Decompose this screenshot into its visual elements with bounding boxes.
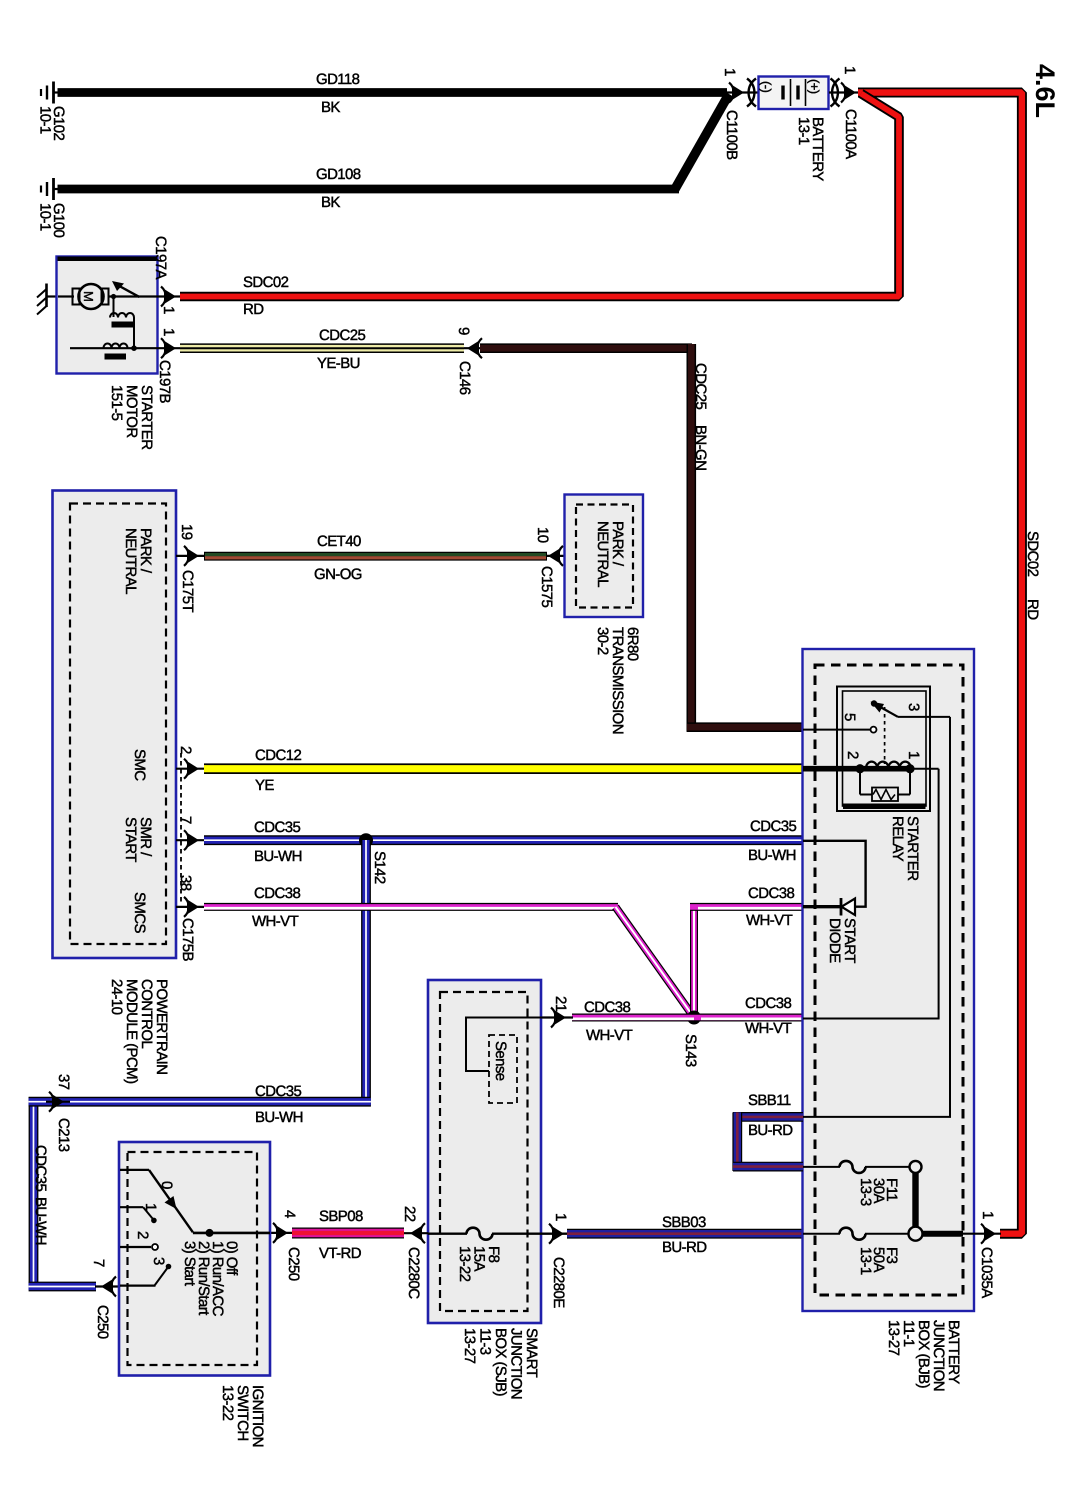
svg-text:CDC38: CDC38 bbox=[584, 999, 630, 1016]
connector C1100A pin 1 bbox=[829, 66, 859, 159]
connector C2280C pin 22 bbox=[401, 1206, 428, 1299]
svg-text:CDC25: CDC25 bbox=[319, 327, 365, 344]
svg-text:C2280E: C2280E bbox=[550, 1257, 567, 1308]
svg-text:C1100B: C1100B bbox=[723, 110, 740, 160]
svg-text:BU-RD: BU-RD bbox=[748, 1122, 793, 1139]
connector C2280E pin 1 bbox=[549, 1213, 569, 1308]
connector C197B pin 1 bbox=[156, 328, 180, 403]
start diode bbox=[803, 841, 866, 963]
svg-text:C1575: C1575 bbox=[538, 566, 555, 607]
wire GD118 BK bbox=[53, 71, 727, 116]
connector C250 pin 7 bbox=[90, 1259, 120, 1339]
svg-text:GN-OG: GN-OG bbox=[314, 566, 362, 583]
svg-text:1: 1 bbox=[552, 1213, 569, 1221]
smart junction box (SJB) 11-3 13-27 bbox=[428, 980, 541, 1399]
svg-text:1: 1 bbox=[142, 1203, 159, 1211]
bus bar between F11 and F3 terminals bbox=[912, 1172, 918, 1227]
svg-text:10: 10 bbox=[534, 527, 551, 543]
connector C146 pin 9 bbox=[455, 327, 482, 395]
svg-text:SMC: SMC bbox=[131, 749, 148, 781]
svg-text:VT-RD: VT-RD bbox=[319, 1245, 362, 1262]
svg-text:21: 21 bbox=[552, 996, 569, 1012]
svg-text:WH-VT: WH-VT bbox=[252, 913, 299, 930]
splice S143 bbox=[682, 1011, 701, 1067]
svg-text:S142: S142 bbox=[371, 851, 388, 884]
svg-text:SMR /START: SMR /START bbox=[122, 817, 154, 862]
wire CDC25 YE-BU bbox=[180, 327, 464, 372]
wire CET40 GN-OG bbox=[204, 533, 547, 583]
battery junction box (BJB) 11-1 13-27 bbox=[803, 649, 975, 1391]
relay switch arm pin 3 bbox=[871, 700, 877, 706]
svg-text:1: 1 bbox=[160, 306, 177, 314]
connector C1035A pin 1 bbox=[963, 1211, 1001, 1298]
splice S142 bbox=[359, 833, 388, 884]
svg-text:BU-WH: BU-WH bbox=[748, 847, 796, 864]
svg-text:3: 3 bbox=[905, 703, 922, 711]
svg-text:C1035A: C1035A bbox=[978, 1247, 995, 1298]
svg-text:C250: C250 bbox=[94, 1305, 111, 1339]
svg-text:(+): (+) bbox=[807, 79, 822, 94]
svg-text:C197A: C197A bbox=[152, 236, 169, 279]
ignition contact 0 bbox=[120, 1169, 149, 1171]
svg-text:19: 19 bbox=[178, 524, 195, 540]
relay pin 3 wire to SBB11 bbox=[803, 717, 950, 1117]
svg-text:38: 38 bbox=[177, 875, 194, 891]
svg-text:7: 7 bbox=[177, 816, 194, 824]
svg-text:WH-VT: WH-VT bbox=[586, 1027, 633, 1044]
svg-text:C2280C: C2280C bbox=[405, 1247, 422, 1299]
svg-text:SDC02: SDC02 bbox=[1024, 531, 1041, 577]
engine label 4.6L bbox=[1030, 64, 1060, 118]
wire CDC38 WH-VT (PCM to S143 and BJB diode) bbox=[204, 885, 803, 1018]
fuse F11 30A 13-3 bbox=[803, 1161, 922, 1206]
wire SBB03 BU-RD bbox=[567, 1214, 803, 1256]
svg-text:7: 7 bbox=[90, 1259, 107, 1267]
svg-text:1: 1 bbox=[979, 1211, 996, 1219]
connector C213 pin 37 bbox=[44, 1074, 72, 1152]
svg-text:YE: YE bbox=[255, 777, 274, 794]
svg-text:1: 1 bbox=[160, 328, 177, 336]
svg-text:22: 22 bbox=[401, 1206, 418, 1222]
ignition wiper arm bbox=[149, 1170, 193, 1232]
wire CDC38 WH-VT (SJB pin 21 to S143 to BJB) bbox=[572, 995, 803, 1044]
svg-text:CET40: CET40 bbox=[317, 533, 361, 550]
wire CDC35 BU-WH (C213 down to ignition switch C250 pin 7) bbox=[29, 1097, 96, 1287]
svg-text:C213: C213 bbox=[55, 1118, 72, 1152]
connector C175T pin 19 bbox=[176, 524, 204, 612]
svg-text:RD: RD bbox=[1024, 599, 1041, 620]
starter relay bbox=[803, 687, 950, 882]
park/neutral switch (6R80 transmission 30-2) bbox=[565, 495, 644, 734]
svg-text:2: 2 bbox=[177, 746, 194, 754]
wire CDC35 BU-WH (PCM to BJB) bbox=[204, 818, 803, 865]
motor M bbox=[79, 284, 104, 309]
svg-text:CDC35: CDC35 bbox=[254, 819, 300, 836]
svg-text:CDC25: CDC25 bbox=[692, 363, 709, 409]
svg-text:CDC38: CDC38 bbox=[745, 995, 791, 1012]
svg-text:SMCS: SMCS bbox=[131, 892, 148, 934]
SJB sense circuit bbox=[466, 1018, 560, 1104]
svg-text:SDC02: SDC02 bbox=[243, 274, 289, 291]
svg-text:CDC38: CDC38 bbox=[748, 885, 794, 902]
relay coil pins 2-1 bbox=[803, 766, 912, 772]
connector C1100B pin 1 bbox=[721, 68, 758, 160]
wire CDC25 BN-GN bbox=[480, 344, 803, 732]
connector C1575 pin 10 bbox=[534, 527, 565, 607]
connector C175B pins 2,7,38 bbox=[176, 746, 204, 961]
connector C2280E pin 21 bbox=[541, 996, 573, 1028]
svg-text:S143: S143 bbox=[682, 1034, 699, 1067]
svg-text:C146: C146 bbox=[456, 361, 473, 395]
wire SDC02 RD branch to starter motor bbox=[180, 94, 899, 319]
svg-text:C197B: C197B bbox=[156, 360, 173, 403]
svg-text:3: 3 bbox=[150, 1257, 167, 1265]
ground G102 bbox=[37, 82, 68, 141]
svg-text:C1100A: C1100A bbox=[842, 109, 859, 159]
svg-text:BU-WH: BU-WH bbox=[254, 848, 302, 865]
svg-text:9: 9 bbox=[455, 327, 472, 335]
fuse F3 50A 13-1 bbox=[803, 1227, 963, 1275]
svg-text:STARTDIODE: STARTDIODE bbox=[826, 918, 858, 963]
powertrain control module (PCM) 24-10 bbox=[53, 491, 177, 1085]
wire SBB11 BU-RD bbox=[733, 1092, 803, 1171]
svg-text:(-): (-) bbox=[759, 81, 774, 92]
ground G100 bbox=[37, 178, 68, 238]
svg-text:BU-RD: BU-RD bbox=[662, 1239, 707, 1256]
battery B1 bbox=[759, 77, 829, 182]
svg-text:RD: RD bbox=[243, 301, 264, 318]
svg-text:CDC35: CDC35 bbox=[750, 818, 796, 835]
relay pin 5 contact bbox=[803, 729, 870, 731]
wire SBP08 VT-RD bbox=[292, 1208, 404, 1262]
svg-text:WH-VT: WH-VT bbox=[746, 912, 793, 929]
ignition switch 13-22 bbox=[119, 1142, 270, 1447]
svg-text:WH-VT: WH-VT bbox=[745, 1020, 792, 1037]
starter motor ground bbox=[37, 284, 57, 315]
svg-text:2: 2 bbox=[134, 1231, 151, 1239]
relay pin 1 wire to CDC38 bbox=[803, 769, 939, 1019]
starter motor 151-5 bbox=[57, 257, 159, 451]
svg-text:CDC35: CDC35 bbox=[32, 1145, 49, 1191]
svg-text:BU-WH: BU-WH bbox=[255, 1109, 303, 1126]
svg-text:1: 1 bbox=[721, 68, 738, 76]
relay coil dashed actuator link bbox=[884, 707, 886, 764]
svg-text:BK: BK bbox=[321, 194, 340, 211]
svg-text:1: 1 bbox=[905, 751, 922, 759]
svg-text:SBB11: SBB11 bbox=[748, 1092, 791, 1109]
svg-text:5: 5 bbox=[841, 713, 858, 721]
svg-text:CDC35: CDC35 bbox=[255, 1083, 301, 1100]
svg-text:YE-BU: YE-BU bbox=[317, 355, 360, 372]
svg-text:CDC38: CDC38 bbox=[254, 885, 300, 902]
svg-text:SBP08: SBP08 bbox=[319, 1208, 363, 1225]
svg-text:GD118: GD118 bbox=[316, 71, 360, 88]
ignition contact 1 bbox=[120, 1206, 143, 1208]
svg-text:1: 1 bbox=[841, 66, 858, 74]
connector C250 pin 4 bbox=[268, 1210, 302, 1281]
connector C197A pin 1 bbox=[152, 236, 180, 314]
svg-text:BN-GN: BN-GN bbox=[692, 425, 709, 470]
svg-text:CDC12: CDC12 bbox=[255, 747, 301, 764]
solenoid switch contact bbox=[109, 295, 159, 297]
wire CDC35 BU-WH (S142 down to C213) bbox=[46, 840, 371, 1126]
ignition contact 2 bbox=[120, 1246, 151, 1248]
svg-text:C250: C250 bbox=[285, 1247, 302, 1281]
svg-text:M: M bbox=[81, 291, 96, 301]
solenoid pull-in coil bbox=[113, 297, 115, 318]
svg-text:4: 4 bbox=[281, 1210, 298, 1218]
svg-text:2: 2 bbox=[844, 751, 861, 759]
solenoid hold-in coil bbox=[70, 347, 158, 349]
wire SDC02 RD main run (battery to BJB C1035A) bbox=[858, 93, 1041, 1234]
svg-text:Sense: Sense bbox=[492, 1041, 509, 1081]
svg-text:BU-WH: BU-WH bbox=[32, 1197, 49, 1245]
svg-text:GD108: GD108 bbox=[316, 166, 361, 183]
fuse F8 15A 13-22 bbox=[428, 1228, 567, 1282]
svg-text:C175B: C175B bbox=[179, 918, 196, 961]
wire CDC12 YE bbox=[204, 747, 803, 794]
svg-text:BK: BK bbox=[321, 99, 340, 116]
ignition common output bbox=[193, 1232, 270, 1235]
svg-text:37: 37 bbox=[55, 1074, 72, 1090]
relay parallel resistor bbox=[859, 769, 861, 795]
ignition contact 3 bbox=[166, 1264, 172, 1270]
svg-text:SBB03: SBB03 bbox=[662, 1214, 706, 1231]
svg-text:C175T: C175T bbox=[179, 570, 196, 612]
svg-text:4.6L: 4.6L bbox=[1030, 64, 1060, 118]
wire GD108 BK bbox=[53, 94, 729, 211]
